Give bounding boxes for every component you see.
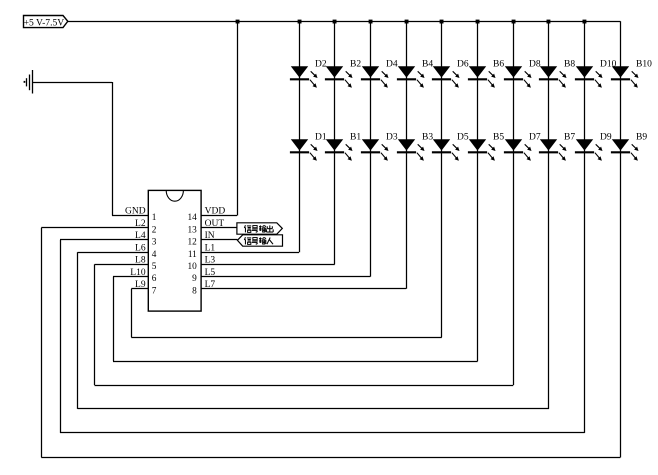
power flag +5 V-7.5V (24, 16, 68, 29)
svg-text:8: 8 (192, 286, 197, 296)
svg-text:14: 14 (188, 213, 198, 223)
LED D3 (361, 132, 398, 160)
wire net L6 pin4 to column 8 (78, 252, 550, 409)
wire net L10 pin6 to column 6 (113, 277, 478, 362)
wire LED column 7 (513, 21, 515, 385)
svg-text:D9: D9 (600, 132, 612, 142)
svg-text:5: 5 (152, 262, 157, 272)
wire net L7 to column 4 (201, 288, 406, 290)
pin label GND (125, 207, 146, 217)
svg-text:7: 7 (152, 286, 157, 296)
junction rail-col4 (405, 20, 409, 24)
pin number 13 (188, 225, 198, 235)
LED D7 (504, 132, 541, 160)
LED D9 (575, 132, 612, 160)
svg-text:VDD: VDD (205, 207, 226, 217)
svg-text:11: 11 (188, 250, 197, 260)
pin label L3 (205, 256, 216, 266)
pin label VDD (205, 207, 226, 217)
junction rail-col6 (476, 20, 480, 24)
svg-text:9: 9 (192, 274, 197, 284)
pin number 9 (192, 274, 197, 284)
wire LED column 6 (477, 21, 479, 361)
svg-text:D7: D7 (529, 132, 541, 142)
wire net L9 pin7 to column 5 (131, 289, 442, 338)
LED B5 (468, 132, 504, 160)
junction rail-col8 (547, 20, 551, 24)
svg-text:B9: B9 (636, 132, 647, 142)
pin label L2 (135, 219, 146, 229)
IC U1 14-pin (148, 190, 201, 311)
svg-text:10: 10 (188, 262, 198, 272)
pin number 5 (152, 262, 157, 272)
wire VDD to rail (201, 21, 237, 215)
signal flag 信号输出 (signal output) (237, 223, 282, 234)
pin label L10 (130, 268, 146, 278)
wire net L5 to column 3 (201, 276, 370, 278)
svg-text:12: 12 (188, 238, 198, 248)
junction rail-col2 (333, 20, 337, 24)
wire LED column 2 (334, 21, 336, 264)
wire net L8 pin5 to column 7 (95, 264, 514, 385)
LED B2 (325, 59, 361, 87)
wire OUT pin 13 (201, 227, 237, 229)
svg-text:B6: B6 (493, 59, 504, 69)
LED B7 (539, 132, 575, 160)
pin label L6 (135, 243, 146, 253)
pin label L4 (135, 231, 146, 241)
svg-text:D3: D3 (386, 132, 398, 142)
svg-text:1: 1 (152, 213, 157, 223)
ground (24, 70, 33, 94)
svg-text:B7: B7 (564, 132, 575, 142)
svg-text:D6: D6 (457, 59, 469, 69)
pin number 14 (188, 213, 198, 223)
junction rail-col5 (440, 20, 444, 24)
svg-text:B1: B1 (350, 132, 361, 142)
svg-text:GND: GND (125, 207, 146, 217)
svg-text:3: 3 (152, 238, 157, 248)
pin label L7 (205, 280, 216, 290)
wire LED column 1 (299, 21, 301, 252)
LED B3 (397, 132, 433, 160)
LED D2 (290, 59, 327, 87)
LED B4 (397, 59, 433, 87)
wire +V rail (68, 21, 621, 23)
svg-text:+5 V-7.5V: +5 V-7.5V (24, 17, 65, 28)
pin number 8 (192, 286, 197, 296)
svg-text:B2: B2 (350, 59, 361, 69)
LED B9 (611, 132, 647, 160)
wire net L1 to column 1 (201, 252, 299, 254)
svg-text:D5: D5 (457, 132, 469, 142)
pin label L5 (205, 268, 216, 278)
svg-text:B3: B3 (422, 132, 433, 142)
svg-text:B5: B5 (493, 132, 504, 142)
LED D10 (575, 59, 617, 87)
wire LED column 4 (406, 21, 408, 289)
LED D5 (432, 132, 469, 160)
LED D4 (361, 59, 398, 87)
signal flag 信号输入 (signal input) (237, 235, 282, 246)
pin number 11 (188, 250, 197, 260)
svg-text:13: 13 (188, 225, 198, 235)
pin number 6 (152, 274, 157, 284)
svg-text:D2: D2 (315, 59, 327, 69)
LED B1 (325, 132, 361, 160)
wire LED column 9 (584, 21, 586, 433)
pin label L1 (205, 243, 216, 253)
wire net L4 pin3 to column 9 (60, 240, 585, 433)
LED B10 (611, 59, 652, 87)
pin number 3 (152, 238, 157, 248)
pin number 2 (152, 225, 157, 235)
svg-text:B10: B10 (636, 59, 652, 69)
svg-text:D4: D4 (386, 59, 398, 69)
pin number 7 (152, 286, 157, 296)
LED D1 (290, 132, 327, 160)
LED D8 (504, 59, 541, 87)
svg-text:D1: D1 (315, 132, 327, 142)
junction rail-col3 (369, 20, 373, 24)
pin number 10 (188, 262, 198, 272)
pin number 12 (188, 238, 198, 248)
junction rail-col1 (298, 20, 302, 24)
junction rail-col7 (512, 20, 516, 24)
svg-text:B4: B4 (422, 59, 433, 69)
pin label L8 (135, 256, 146, 266)
LED B6 (468, 59, 504, 87)
svg-text:2: 2 (152, 225, 157, 235)
wire LED column 8 (548, 21, 550, 409)
wire IN pin 12 (201, 239, 237, 241)
junction rail-VDD (236, 20, 240, 24)
pin label OUT (205, 219, 225, 229)
pin label IN (205, 231, 215, 241)
LED B8 (539, 59, 575, 87)
junction rail-col9 (583, 20, 587, 24)
svg-text:D8: D8 (529, 59, 541, 69)
svg-text:4: 4 (152, 250, 157, 260)
LED D6 (432, 59, 469, 87)
wire LED column 5 (441, 21, 443, 337)
wire net L3 to column 2 (201, 264, 335, 266)
wire LED column 10 (620, 21, 622, 457)
pin label L9 (135, 280, 146, 290)
wire LED column 3 (370, 21, 372, 276)
wire ground to GND pin 1 (33, 82, 149, 216)
svg-text:B8: B8 (564, 59, 575, 69)
pin number 1 (152, 213, 157, 223)
pin number 4 (152, 250, 157, 260)
wire net L2 pin2 to column 10 (41, 228, 620, 458)
svg-text:6: 6 (152, 274, 157, 284)
